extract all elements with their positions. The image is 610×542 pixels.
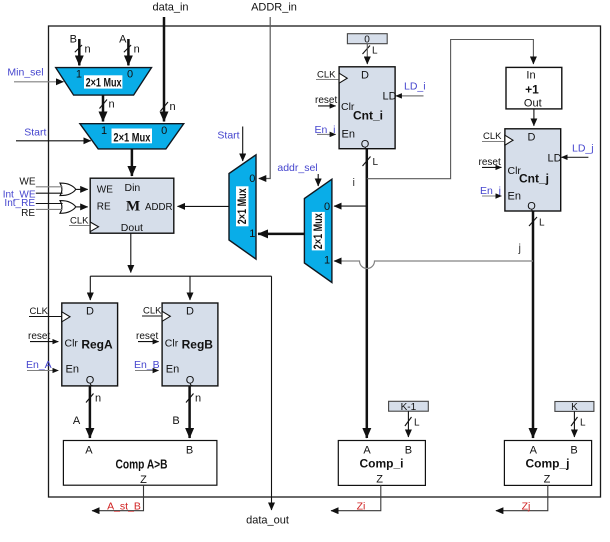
svg-text:D: D: [528, 132, 536, 144]
svg-text:Min_sel: Min_sel: [7, 67, 43, 79]
svg-text:reset: reset: [136, 331, 158, 342]
svg-text:Comp A>B: Comp A>B: [116, 457, 168, 471]
svg-text:Q: Q: [186, 375, 195, 387]
svg-text:Clr: Clr: [65, 338, 79, 350]
svg-text:2×1 Mux: 2×1 Mux: [86, 75, 122, 89]
svg-text:LD: LD: [383, 91, 397, 103]
svg-text:Out: Out: [524, 98, 542, 110]
svg-text:WE: WE: [97, 184, 113, 195]
svg-text:L: L: [372, 46, 378, 57]
svg-text:Z: Z: [376, 474, 383, 486]
svg-text:data_in: data_in: [152, 2, 188, 14]
svg-text:Clr: Clr: [165, 338, 179, 350]
svg-text:Dout: Dout: [121, 222, 143, 234]
svg-text:CLK: CLK: [143, 306, 162, 317]
svg-text:B: B: [172, 415, 179, 427]
svg-text:0: 0: [324, 201, 330, 213]
svg-text:M: M: [126, 199, 140, 215]
svg-text:n: n: [170, 101, 176, 113]
svg-text:reset: reset: [28, 331, 50, 342]
svg-text:A: A: [530, 445, 538, 457]
svg-text:n: n: [85, 43, 91, 55]
svg-text:En: En: [166, 364, 179, 376]
svg-text:0: 0: [127, 69, 133, 81]
svg-text:In: In: [526, 70, 535, 82]
svg-text:Start: Start: [24, 127, 46, 139]
svg-text:reset: reset: [479, 157, 501, 168]
svg-text:1: 1: [249, 228, 255, 240]
svg-text:1: 1: [324, 255, 330, 267]
svg-text:i: i: [353, 177, 355, 189]
svg-text:LD: LD: [548, 153, 562, 165]
svg-text:Comp_j: Comp_j: [525, 457, 569, 471]
svg-text:K-1: K-1: [401, 402, 417, 413]
svg-text:CLK: CLK: [70, 216, 89, 227]
svg-text:B: B: [570, 445, 577, 457]
svg-text:Cnt_i: Cnt_i: [353, 109, 383, 123]
svg-text:LD_j: LD_j: [572, 143, 594, 155]
svg-text:0: 0: [249, 173, 255, 185]
svg-text:L: L: [539, 218, 545, 229]
svg-text:0: 0: [161, 125, 167, 137]
svg-text:1: 1: [76, 69, 82, 81]
svg-text:L: L: [414, 418, 420, 429]
svg-text:RE: RE: [21, 208, 35, 219]
svg-text:Q: Q: [361, 139, 370, 151]
svg-text:L: L: [373, 157, 379, 168]
svg-text:CLK: CLK: [317, 70, 336, 81]
svg-text:Z: Z: [140, 474, 147, 486]
svg-text:Zj: Zj: [522, 501, 531, 513]
svg-text:En: En: [66, 364, 79, 376]
svg-text:ADDR_in: ADDR_in: [251, 2, 297, 14]
svg-text:A: A: [363, 445, 371, 457]
svg-text:B: B: [405, 445, 412, 457]
svg-text:A: A: [73, 415, 81, 427]
svg-text:Q: Q: [527, 201, 536, 213]
svg-text:En_A: En_A: [26, 359, 52, 371]
svg-text:reset: reset: [315, 95, 337, 106]
svg-text:Q: Q: [86, 375, 95, 387]
svg-text:L: L: [580, 418, 586, 429]
svg-text:1: 1: [101, 125, 107, 137]
svg-text:B: B: [186, 445, 193, 457]
svg-text:A: A: [85, 445, 93, 457]
svg-text:CLK: CLK: [30, 306, 49, 317]
svg-text:En_B: En_B: [134, 359, 160, 371]
svg-text:K: K: [571, 402, 578, 413]
svg-text:2×1 Mux: 2×1 Mux: [235, 188, 249, 224]
svg-text:2×1 Mux: 2×1 Mux: [113, 131, 150, 145]
svg-text:addr_sel: addr_sel: [277, 162, 317, 174]
svg-text:B: B: [70, 34, 77, 46]
svg-text:A_st_B: A_st_B: [107, 501, 141, 513]
svg-text:En_j: En_j: [480, 185, 501, 197]
svg-text:j: j: [518, 243, 521, 255]
svg-text:En: En: [508, 191, 521, 203]
svg-text:n: n: [109, 99, 115, 111]
svg-text:En: En: [342, 129, 355, 141]
svg-text:RE: RE: [97, 201, 111, 212]
svg-text:CLK: CLK: [483, 131, 502, 142]
svg-text:Cnt_j: Cnt_j: [519, 172, 549, 186]
svg-text:n: n: [195, 393, 201, 405]
svg-text:Zi: Zi: [357, 501, 366, 513]
svg-text:LD_i: LD_i: [404, 81, 426, 93]
svg-text:+1: +1: [525, 83, 539, 97]
svg-text:D: D: [186, 306, 194, 318]
svg-text:D: D: [361, 70, 369, 82]
svg-text:WE: WE: [19, 177, 35, 188]
svg-text:A: A: [119, 34, 127, 46]
svg-text:Din: Din: [125, 182, 141, 194]
svg-text:D: D: [86, 306, 94, 318]
svg-text:2×1 Mux: 2×1 Mux: [311, 213, 325, 249]
svg-text:n: n: [95, 393, 101, 405]
svg-text:Comp_i: Comp_i: [359, 457, 403, 471]
svg-text:RegB: RegB: [182, 338, 214, 352]
svg-text:Z: Z: [544, 474, 551, 486]
svg-text:n: n: [134, 43, 140, 55]
svg-text:ADDR: ADDR: [145, 201, 173, 213]
svg-text:RegA: RegA: [81, 338, 113, 352]
svg-text:data_out: data_out: [246, 515, 289, 527]
svg-text:Start: Start: [217, 130, 239, 142]
